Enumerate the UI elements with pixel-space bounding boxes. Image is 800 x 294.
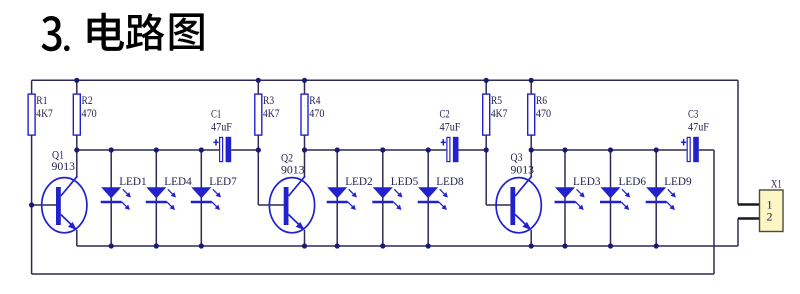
svg-text:47uF: 47uF [688,120,709,134]
junction emitter rail x=382.8 [380,243,385,248]
title "3. 电路图" [42,13,204,52]
junction emitter rail x=428.2 [426,243,431,248]
junction emitter rail x=565 [562,243,567,248]
wire R4 column [304,80,306,150]
junction emitter rail x=304.5 [302,243,307,248]
junction top rail x=304.5 [302,78,307,83]
LED5 [372,174,418,210]
junction top rail x=258.3 [256,78,261,83]
junction collector rail x=111.2 [109,147,114,152]
wire Q2 base lead [258,204,287,206]
junction emitter rail x=610.5 [608,243,613,248]
svg-text:C1: C1 [211,107,221,121]
wire Q3 collector lead [530,150,532,177]
svg-text:9013: 9013 [281,163,305,177]
junction collector rail x=156.3 [154,147,159,152]
wire top supply rail [32,79,738,81]
LED7 [191,174,237,210]
wire LED7 column [200,150,202,246]
svg-text:LED3: LED3 [573,174,601,188]
junction collector rail x=304.5 [302,147,307,152]
junction top rail x=531.2 [529,78,534,83]
wire stage1 collector rail [77,149,219,151]
junction top rail x=486.2 [484,78,489,83]
wire LED4 column [155,150,157,246]
junction emitter rail x=531.2 [529,243,534,248]
wire emitter/LED bottom rail [77,245,738,247]
wire C3 to output vertical segment [699,149,714,151]
LED4 [146,174,192,210]
svg-text:470: 470 [309,106,324,120]
junction collector rail x=531.2 [529,147,534,152]
svg-text:4K7: 4K7 [36,106,53,120]
connector X1 [760,177,784,232]
resistor R6 470 [528,93,551,135]
junction collector rail x=76.8 [74,147,79,152]
LED8 [418,174,464,210]
wire LED9 column [655,150,657,246]
junction emitter rail x=656.2 [654,243,659,248]
wire LED3 column [564,150,566,246]
wire LED6 column [610,150,612,246]
wire Q1 collector lead [76,150,78,177]
svg-text:X1: X1 [771,177,782,191]
wire R3 column and Q2 base link [257,80,259,205]
svg-text:470: 470 [82,106,97,120]
wire Q2 emitter lead [304,230,306,246]
wire C2 to R5 segment [459,149,487,151]
junction Q1 base node [29,202,34,207]
resistor R1 4K7 [28,93,53,135]
svg-text:C3: C3 [688,107,698,121]
wire C3 output vertical [713,150,715,274]
junction emitter rail x=337.2 [335,243,340,248]
junction collector rail x=382.8 [380,147,385,152]
wire LED5 column [382,150,384,246]
wire left vertical (R1/Q1 base branch) [31,80,33,274]
svg-text:470: 470 [536,106,551,120]
wire LED8 column [427,150,429,246]
svg-text:4K7: 4K7 [263,106,280,120]
junction emitter rail x=156.3 [154,243,159,248]
wire bottom feedback rail [32,273,714,275]
capacitor C2 47uF electrolytic [440,107,461,163]
capacitor C3 47uF electrolytic [681,107,709,163]
junction collector rail x=486.2 [484,147,489,152]
svg-text:LED2: LED2 [345,174,373,188]
svg-text:LED7: LED7 [209,174,237,188]
junction emitter rail x=201.3 [199,243,204,248]
LED6 [600,174,646,210]
svg-text:LED1: LED1 [119,174,147,188]
wire LED2 column [336,150,338,246]
resistor R4 470 [301,93,324,135]
junction collector rail x=201.3 [199,147,204,152]
junction collector rail x=258.3 [256,147,261,152]
junction emitter rail x=111.2 [109,243,114,248]
wire stage3 collector rail [531,149,686,151]
LED1 [101,174,147,210]
wire R5 column and Q3 base link [485,80,487,205]
svg-text:R1: R1 [36,93,47,107]
svg-text:R4: R4 [309,93,320,107]
resistor R2 470 [73,93,96,135]
junction collector rail x=337.2 [335,147,340,152]
svg-text:47uF: 47uF [440,120,461,134]
svg-text:LED4: LED4 [164,174,192,188]
LED3 [555,174,601,210]
svg-text:R2: R2 [82,93,93,107]
svg-text:2: 2 [767,209,773,223]
wire X1 pin 2 lead [738,217,760,219]
svg-text:9013: 9013 [52,159,76,173]
wire right vertical to X1 pin 1 [737,80,739,204]
LED9 [646,174,692,210]
capacitor C1 47uF electrolytic [211,107,232,163]
svg-text:C2: C2 [440,107,450,121]
wire stage2 collector rail [305,149,447,151]
wire R2 column [76,80,78,150]
svg-text:LED9: LED9 [664,174,692,188]
svg-text:R5: R5 [491,93,502,107]
junction top rail x=76.8 [74,78,79,83]
svg-text:4K7: 4K7 [491,106,508,120]
wire X1 pin 2 drop [737,219,739,247]
wire X1 pin 1 lead [738,203,760,205]
resistor R3 4K7 [255,93,280,135]
svg-text:R6: R6 [536,93,547,107]
wire Q1 emitter lead [76,230,78,246]
wire R6 column [530,80,532,150]
wire LED1 column [110,150,112,246]
wire Q3 base lead [486,204,514,206]
resistor R5 4K7 [483,93,508,135]
junction collector rail x=656.2 [654,147,659,152]
svg-text:9013: 9013 [511,163,535,177]
junction collector rail x=428.2 [426,147,431,152]
svg-text:47uF: 47uF [211,120,232,134]
junction collector rail x=565 [562,147,567,152]
wire Q2 collector lead [304,150,306,177]
svg-text:R3: R3 [263,93,274,107]
svg-text:LED6: LED6 [619,174,647,188]
svg-text:LED8: LED8 [436,174,464,188]
transistor Q2 9013 NPN [269,151,314,233]
wire C1 to R3 segment [231,149,258,151]
junction collector rail x=610.5 [608,147,613,152]
wire Q1 base lead [32,204,59,206]
transistor Q3 9013 NPN [496,150,541,233]
wire Q3 emitter lead [530,230,532,246]
transistor Q1 9013 NPN [42,148,87,233]
LED2 [327,174,373,210]
svg-text:LED5: LED5 [391,174,419,188]
